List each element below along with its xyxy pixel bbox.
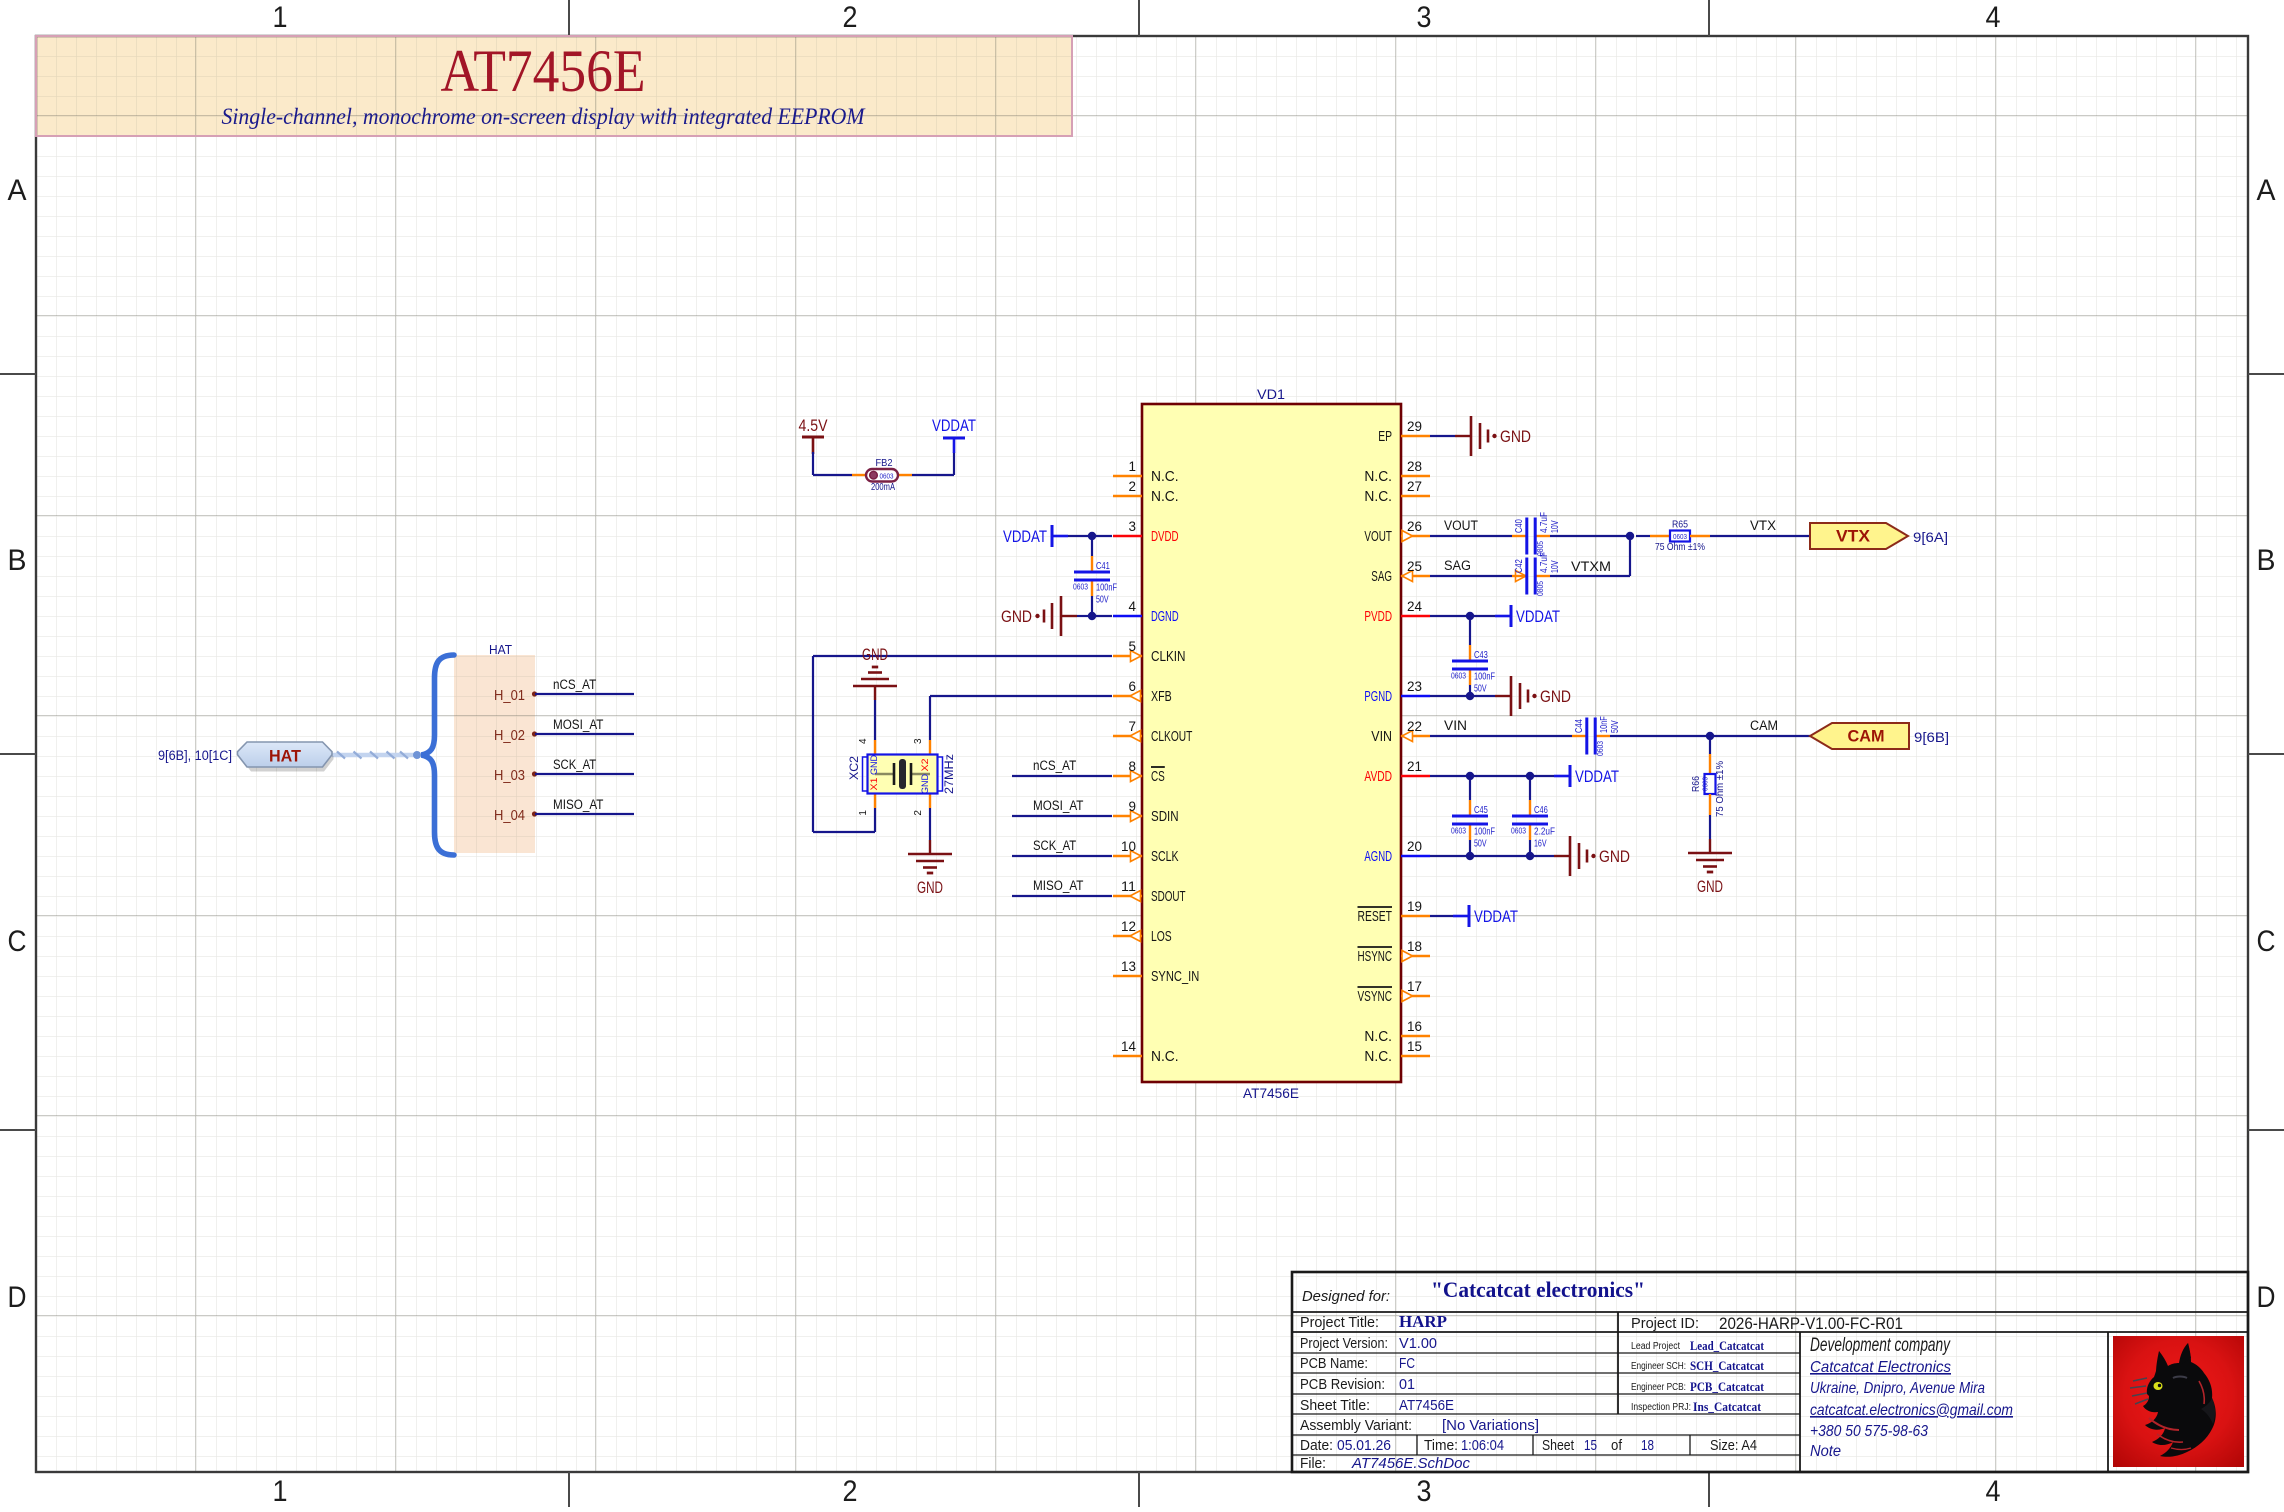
svg-text:24: 24 bbox=[1407, 599, 1422, 614]
svg-text:XFB: XFB bbox=[1151, 688, 1172, 705]
svg-text:SAG: SAG bbox=[1371, 568, 1392, 585]
svg-text:catcatcat.electronics@gmail.co: catcatcat.electronics@gmail.com bbox=[1810, 1402, 2013, 1419]
svg-text:VD1: VD1 bbox=[1257, 386, 1285, 402]
harness brace bbox=[422, 655, 455, 855]
svg-text:C42: C42 bbox=[1513, 559, 1525, 573]
title block frame bbox=[1292, 1272, 2248, 1472]
svg-text:MOSI_AT: MOSI_AT bbox=[553, 717, 603, 732]
power port VDDAT (pin 3) bbox=[1052, 535, 1068, 538]
svg-text:Engineer SCH:: Engineer SCH: bbox=[1631, 1361, 1686, 1372]
port CAM bbox=[1810, 723, 1909, 749]
svg-text:GND: GND bbox=[920, 774, 931, 794]
svg-text:Project Title:: Project Title: bbox=[1300, 1314, 1379, 1331]
svg-text:Single-channel, monochrome on-: Single-channel, monochrome on-screen dis… bbox=[222, 104, 867, 129]
svg-text:DVDD: DVDD bbox=[1151, 528, 1179, 545]
power port 4.5V bbox=[812, 437, 815, 454]
svg-text:B: B bbox=[2257, 544, 2276, 577]
svg-text:SCH_Catcatcat: SCH_Catcatcat bbox=[1690, 1358, 1765, 1373]
IC pin 23 PGND (right) bbox=[1401, 695, 1430, 697]
svg-text:C45: C45 bbox=[1474, 804, 1488, 816]
svg-text:C40: C40 bbox=[1513, 519, 1525, 533]
svg-text:H_04: H_04 bbox=[494, 808, 525, 824]
svg-text:10V: 10V bbox=[1549, 520, 1561, 533]
svg-text:200mA: 200mA bbox=[871, 481, 895, 493]
svg-text:1: 1 bbox=[273, 1475, 288, 1507]
svg-text:AVDD: AVDD bbox=[1364, 768, 1392, 785]
svg-text:D: D bbox=[8, 1281, 27, 1314]
svg-text:5: 5 bbox=[1129, 639, 1137, 654]
svg-text:V1.00: V1.00 bbox=[1399, 1335, 1437, 1352]
wire VDDAT to pin 3 bbox=[1068, 535, 1112, 537]
svg-text:DGND: DGND bbox=[1151, 608, 1179, 625]
svg-text:1: 1 bbox=[273, 1, 288, 34]
svg-text:VTXM: VTXM bbox=[1571, 559, 1611, 574]
IC pin 28 N.C. (right) bbox=[1401, 475, 1430, 477]
wire net MOSI_AT to IC bbox=[1012, 815, 1112, 817]
svg-text:XC2: XC2 bbox=[847, 756, 861, 780]
node junction AGND 1 bbox=[1466, 852, 1474, 860]
svg-text:0603: 0603 bbox=[1511, 827, 1526, 836]
node junction AVDD 1 bbox=[1466, 772, 1474, 780]
svg-text:3: 3 bbox=[913, 738, 924, 744]
svg-text:Project ID:: Project ID: bbox=[1631, 1315, 1699, 1332]
svg-text:FB2: FB2 bbox=[876, 457, 893, 469]
wire AVDD bbox=[1430, 775, 1554, 777]
IC pin 26 VOUT (right) bbox=[1401, 535, 1430, 537]
IC pin 5 CLKIN (left) bbox=[1113, 655, 1142, 657]
IC pin 17 VSYNC (right) bbox=[1401, 995, 1430, 997]
svg-text:Catcatcat Electronics: Catcatcat Electronics bbox=[1810, 1359, 1951, 1376]
svg-text:PCB Revision:: PCB Revision: bbox=[1300, 1376, 1385, 1393]
svg-text:H_03: H_03 bbox=[494, 768, 525, 784]
wire junction to pin 4 bbox=[1092, 615, 1112, 617]
wire harness MOSI_AT bbox=[535, 733, 634, 735]
svg-text:A: A bbox=[8, 174, 27, 207]
svg-text:VSYNC: VSYNC bbox=[1358, 988, 1393, 1005]
IC pin 15 N.C. (right) bbox=[1401, 1055, 1430, 1057]
svg-text:VTX: VTX bbox=[1836, 527, 1871, 546]
svg-text:AT7456E: AT7456E bbox=[1399, 1397, 1454, 1414]
svg-text:R65: R65 bbox=[1672, 519, 1688, 531]
svg-text:A: A bbox=[2257, 174, 2276, 207]
svg-text:H_01: H_01 bbox=[494, 688, 525, 704]
svg-text:GND: GND bbox=[1500, 427, 1531, 446]
svg-text:2.2uF: 2.2uF bbox=[1534, 826, 1555, 838]
IC pin 13 SYNC_IN (left) bbox=[1113, 975, 1142, 977]
harness cable from HAT port bbox=[332, 753, 418, 758]
harness HAT shaded region bbox=[454, 655, 535, 853]
svg-text:16: 16 bbox=[1407, 1019, 1422, 1034]
node junction CAM bbox=[1706, 732, 1714, 740]
svg-text:VDDAT: VDDAT bbox=[1516, 607, 1560, 626]
svg-text:B: B bbox=[8, 544, 27, 577]
svg-text:SCLK: SCLK bbox=[1151, 848, 1179, 865]
ground GND (EP pin 29) bbox=[1455, 435, 1471, 437]
wire crystal pin3 to XFB pin 6 bbox=[929, 696, 931, 740]
svg-text:14: 14 bbox=[1121, 1039, 1136, 1054]
svg-text:VOUT: VOUT bbox=[1364, 528, 1392, 545]
power port VDDAT (top) bbox=[953, 438, 956, 453]
IC pin 12 LOS (left) bbox=[1113, 935, 1142, 937]
svg-text:SCK_AT: SCK_AT bbox=[553, 757, 596, 772]
svg-text:100nF: 100nF bbox=[1474, 826, 1495, 838]
capacitor C40 4.7uF 10V bbox=[1512, 535, 1526, 537]
resistor R65 75 Ohm bbox=[1636, 535, 1650, 537]
svg-text:C41: C41 bbox=[1096, 560, 1110, 572]
svg-text:4: 4 bbox=[858, 738, 869, 744]
svg-text:GND: GND bbox=[1540, 687, 1571, 706]
svg-text:X2: X2 bbox=[920, 759, 931, 772]
svg-text:PGND: PGND bbox=[1364, 688, 1392, 705]
svg-text:SDIN: SDIN bbox=[1151, 808, 1179, 825]
ferrite bead FB2 200mA bbox=[852, 474, 867, 476]
svg-text:15: 15 bbox=[1584, 1437, 1597, 1454]
ground GND (R66) bbox=[1709, 839, 1711, 853]
svg-text:1: 1 bbox=[858, 810, 869, 816]
signal arrow into C42 bbox=[1516, 571, 1527, 582]
svg-text:Size: A4: Size: A4 bbox=[1710, 1437, 1757, 1454]
svg-text:Ins_Catcatcat: Ins_Catcatcat bbox=[1693, 1399, 1762, 1414]
svg-text:C46: C46 bbox=[1534, 804, 1548, 816]
svg-text:2: 2 bbox=[843, 1475, 858, 1507]
IC pin 6 XFB (left) bbox=[1113, 695, 1142, 697]
svg-text:28: 28 bbox=[1407, 459, 1422, 474]
node VTX junction bbox=[1626, 532, 1634, 540]
svg-text:8: 8 bbox=[1129, 759, 1137, 774]
node junction pin3 bbox=[1088, 532, 1096, 540]
wire harness SCK_AT bbox=[535, 773, 634, 775]
svg-text:PVDD: PVDD bbox=[1364, 608, 1392, 625]
svg-text:Engineer PCB:: Engineer PCB: bbox=[1631, 1382, 1686, 1393]
svg-text:VDDAT: VDDAT bbox=[932, 416, 976, 435]
svg-text:16V: 16V bbox=[1534, 838, 1547, 850]
svg-text:10: 10 bbox=[1121, 839, 1136, 854]
svg-text:9[6B]: 9[6B] bbox=[1914, 729, 1949, 745]
svg-text:N.C.: N.C. bbox=[1364, 488, 1392, 505]
svg-text:CLKOUT: CLKOUT bbox=[1151, 728, 1192, 745]
svg-text:9[6A]: 9[6A] bbox=[1913, 529, 1948, 545]
svg-text:50V: 50V bbox=[1096, 594, 1109, 606]
svg-text:21: 21 bbox=[1407, 759, 1422, 774]
svg-text:File:: File: bbox=[1300, 1455, 1326, 1472]
svg-text:GND: GND bbox=[869, 755, 880, 775]
company logo (red square with black cat) bbox=[2113, 1336, 2244, 1467]
svg-text:nCS_AT: nCS_AT bbox=[553, 677, 596, 692]
svg-text:MISO_AT: MISO_AT bbox=[553, 797, 603, 812]
svg-text:N.C.: N.C. bbox=[1151, 1048, 1179, 1065]
sheet title banner bbox=[36, 36, 1072, 136]
svg-text:N.C.: N.C. bbox=[1364, 468, 1392, 485]
op-amp/IC U1 VD1 AT7456E body bbox=[1142, 404, 1401, 1082]
svg-text:15: 15 bbox=[1407, 1039, 1422, 1054]
wire harness MISO_AT bbox=[535, 813, 634, 815]
svg-text:12: 12 bbox=[1121, 919, 1136, 934]
svg-text:19: 19 bbox=[1407, 899, 1422, 914]
node junction pin4 bbox=[1088, 612, 1096, 620]
svg-text:0603: 0603 bbox=[1073, 583, 1088, 592]
svg-text:100nF: 100nF bbox=[1474, 671, 1495, 683]
svg-text:+380 50 575-98-63: +380 50 575-98-63 bbox=[1810, 1423, 1928, 1440]
wire RESET to VDDAT bbox=[1430, 915, 1453, 917]
svg-text:Assembly Variant:: Assembly Variant: bbox=[1300, 1417, 1412, 1434]
wire VTXM bbox=[1550, 575, 1630, 577]
svg-text:SAG: SAG bbox=[1444, 558, 1471, 573]
node junction AGND 2 bbox=[1526, 852, 1534, 860]
svg-text:22: 22 bbox=[1407, 719, 1422, 734]
svg-text:2026-HARP-V1.00-FC-R01: 2026-HARP-V1.00-FC-R01 bbox=[1719, 1314, 1903, 1333]
svg-text:3: 3 bbox=[1129, 519, 1137, 534]
svg-text:PCB_Catcatcat: PCB_Catcatcat bbox=[1690, 1379, 1765, 1394]
svg-text:CAM: CAM bbox=[1848, 727, 1885, 746]
power port VDDAT (pin 21) bbox=[1554, 775, 1570, 778]
svg-text:4.5V: 4.5V bbox=[799, 416, 829, 435]
node junction AVDD 2 bbox=[1526, 772, 1534, 780]
svg-text:0603: 0603 bbox=[880, 471, 894, 480]
svg-text:SYNC_IN: SYNC_IN bbox=[1151, 968, 1199, 985]
IC pin 8 CS (left) bbox=[1113, 775, 1142, 777]
IC pin 14 N.C. (left) bbox=[1113, 1055, 1142, 1057]
svg-text:6: 6 bbox=[1129, 679, 1137, 694]
svg-text:Designed for:: Designed for: bbox=[1302, 1288, 1390, 1305]
node junction PVDD bbox=[1466, 612, 1474, 620]
wire R65 to VTX port bbox=[1710, 535, 1810, 537]
wire net nCS_AT to IC bbox=[1012, 775, 1112, 777]
svg-text:Sheet: Sheet bbox=[1542, 1437, 1575, 1454]
svg-text:23: 23 bbox=[1407, 679, 1422, 694]
svg-text:VDDAT: VDDAT bbox=[1575, 767, 1619, 786]
IC pin 22 VIN (right) bbox=[1401, 735, 1430, 737]
wire net MISO_AT to IC bbox=[1012, 895, 1112, 897]
IC pin 20 AGND (right) bbox=[1401, 855, 1430, 857]
svg-text:100nF: 100nF bbox=[1096, 582, 1117, 594]
svg-text:0603: 0603 bbox=[1451, 672, 1466, 681]
svg-text:HSYNC: HSYNC bbox=[1358, 948, 1393, 965]
IC pin 2 N.C. (left) bbox=[1113, 495, 1142, 497]
svg-text:Development company: Development company bbox=[1810, 1335, 1951, 1356]
svg-text:0603: 0603 bbox=[1451, 827, 1466, 836]
svg-text:9: 9 bbox=[1129, 799, 1137, 814]
IC pin 18 HSYNC (right) bbox=[1401, 955, 1430, 957]
svg-text:Inspection PRJ:: Inspection PRJ: bbox=[1631, 1402, 1691, 1413]
port HAT bbox=[242, 744, 334, 772]
IC pin 10 SCLK (left) bbox=[1113, 855, 1142, 857]
svg-text:nCS_AT: nCS_AT bbox=[1033, 758, 1076, 773]
svg-text:0603: 0603 bbox=[1673, 532, 1687, 541]
svg-text:13: 13 bbox=[1121, 959, 1136, 974]
svg-text:75 Ohm ±1%: 75 Ohm ±1% bbox=[1714, 761, 1726, 817]
IC pin 27 N.C. (right) bbox=[1401, 495, 1430, 497]
svg-text:75 Ohm ±1%: 75 Ohm ±1% bbox=[1655, 541, 1705, 553]
svg-text:C43: C43 bbox=[1474, 649, 1488, 661]
svg-text:Ukraine, Dnipro, Avenue Mira: Ukraine, Dnipro, Avenue Mira bbox=[1810, 1380, 1985, 1397]
svg-text:CLKIN: CLKIN bbox=[1151, 648, 1186, 665]
svg-text:GND: GND bbox=[1001, 607, 1032, 626]
svg-text:2: 2 bbox=[913, 810, 924, 816]
svg-text:D: D bbox=[2257, 1281, 2276, 1314]
svg-text:4: 4 bbox=[1129, 599, 1137, 614]
power port VDDAT (pin 24) bbox=[1495, 615, 1511, 618]
svg-text:EP: EP bbox=[1378, 428, 1392, 445]
svg-text:N.C.: N.C. bbox=[1151, 468, 1179, 485]
resistor R66 75 Ohm bbox=[1709, 736, 1711, 754]
wire crystal pin1 loop to CLKIN pin 5 bbox=[874, 808, 876, 832]
wire PGND bbox=[1430, 695, 1495, 697]
wire VIN bbox=[1430, 735, 1572, 737]
svg-text:C: C bbox=[8, 925, 27, 958]
svg-text:HAT: HAT bbox=[489, 642, 512, 657]
node junction PGND bbox=[1466, 692, 1474, 700]
IC pin 9 SDIN (left) bbox=[1113, 815, 1142, 817]
IC pin 19 RESET (right) bbox=[1401, 915, 1430, 917]
svg-text:27MHz: 27MHz bbox=[942, 754, 956, 794]
svg-text:CS: CS bbox=[1151, 768, 1165, 785]
svg-text:[No Variations]: [No Variations] bbox=[1442, 1417, 1539, 1434]
svg-text:Sheet Title:: Sheet Title: bbox=[1300, 1397, 1370, 1414]
svg-text:N.C.: N.C. bbox=[1364, 1028, 1392, 1045]
svg-text:X1: X1 bbox=[869, 778, 880, 791]
svg-text:AGND: AGND bbox=[1364, 848, 1392, 865]
svg-text:VIN: VIN bbox=[1444, 718, 1467, 733]
capacitor C45 100nF 50V bbox=[1469, 776, 1471, 800]
svg-text:VTX: VTX bbox=[1750, 518, 1776, 533]
svg-text:PCB Name:: PCB Name: bbox=[1300, 1355, 1368, 1372]
svg-text:1:06:04: 1:06:04 bbox=[1461, 1437, 1504, 1454]
svg-text:18: 18 bbox=[1407, 939, 1422, 954]
IC pin 4 DGND (left) bbox=[1113, 615, 1142, 617]
svg-text:2: 2 bbox=[1129, 479, 1137, 494]
svg-text:20: 20 bbox=[1407, 839, 1422, 854]
svg-text:27: 27 bbox=[1407, 479, 1422, 494]
svg-text:Lead_Catcatcat: Lead_Catcatcat bbox=[1690, 1338, 1765, 1353]
wire EP to GND bbox=[1430, 435, 1455, 437]
svg-text:50V: 50V bbox=[1474, 838, 1487, 850]
svg-text:MISO_AT: MISO_AT bbox=[1033, 878, 1083, 893]
svg-text:GND: GND bbox=[1697, 877, 1723, 896]
svg-text:11: 11 bbox=[1121, 879, 1136, 894]
svg-text:Date:: Date: bbox=[1300, 1437, 1333, 1454]
svg-text:SDOUT: SDOUT bbox=[1151, 888, 1186, 905]
capacitor C41 100nF 50V bbox=[1091, 536, 1093, 556]
svg-text:1: 1 bbox=[1129, 459, 1137, 474]
svg-text:3: 3 bbox=[1417, 1, 1432, 34]
svg-text:GND: GND bbox=[862, 645, 888, 664]
wire C40 to junction bbox=[1550, 535, 1630, 537]
svg-text:18: 18 bbox=[1641, 1437, 1654, 1454]
svg-text:Project Version:: Project Version: bbox=[1300, 1335, 1388, 1352]
wire PVDD bbox=[1430, 615, 1495, 617]
svg-text:FC: FC bbox=[1399, 1355, 1415, 1372]
svg-text:VOUT: VOUT bbox=[1444, 518, 1478, 533]
svg-text:4: 4 bbox=[1986, 1475, 2001, 1507]
svg-text:0805: 0805 bbox=[1536, 581, 1545, 596]
svg-text:Time:: Time: bbox=[1424, 1437, 1458, 1454]
svg-text:SCK_AT: SCK_AT bbox=[1033, 838, 1076, 853]
IC pin 11 SDOUT (left) bbox=[1113, 895, 1142, 897]
svg-text:HAT: HAT bbox=[269, 747, 302, 766]
ground GND below crystal bbox=[929, 808, 931, 840]
power port VDDAT (pin 19) bbox=[1453, 915, 1469, 918]
wire 4.5V to FB2 bbox=[812, 452, 814, 475]
svg-text:50V: 50V bbox=[1474, 683, 1487, 695]
svg-text:AT7456E: AT7456E bbox=[441, 38, 646, 104]
capacitor C44 10nF 50V bbox=[1572, 735, 1586, 737]
svg-text:C44: C44 bbox=[1573, 719, 1585, 733]
IC pin 1 N.C. (left) bbox=[1113, 475, 1142, 477]
wire AGND bbox=[1430, 855, 1554, 857]
svg-text:7: 7 bbox=[1129, 719, 1137, 734]
svg-text:of: of bbox=[1611, 1437, 1623, 1454]
IC pin 29 EP (right) bbox=[1401, 435, 1430, 437]
svg-text:10V: 10V bbox=[1549, 560, 1561, 573]
svg-text:VDDAT: VDDAT bbox=[1003, 527, 1047, 546]
IC pin 21 AVDD (right) bbox=[1401, 775, 1430, 777]
ground GND (pin 4) bbox=[1077, 615, 1092, 617]
IC pin 16 N.C. (right) bbox=[1401, 1035, 1430, 1037]
svg-text:GND: GND bbox=[917, 878, 943, 897]
IC pin 24 PVDD (right) bbox=[1401, 615, 1430, 617]
svg-text:50V: 50V bbox=[1609, 720, 1621, 733]
svg-text:VIN: VIN bbox=[1371, 728, 1392, 745]
svg-text:2: 2 bbox=[843, 1, 858, 34]
svg-text:CAM: CAM bbox=[1750, 718, 1778, 733]
svg-text:LOS: LOS bbox=[1151, 928, 1172, 945]
ground GND above crystal bbox=[874, 700, 876, 740]
wire VOUT bbox=[1430, 535, 1512, 537]
svg-text:4: 4 bbox=[1986, 1, 2001, 34]
svg-text:N.C.: N.C. bbox=[1151, 488, 1179, 505]
svg-text:MOSI_AT: MOSI_AT bbox=[1033, 798, 1083, 813]
svg-text:GND: GND bbox=[1599, 847, 1630, 866]
ground GND (pin 23) bbox=[1495, 695, 1511, 697]
svg-text:N.C.: N.C. bbox=[1364, 1048, 1392, 1065]
capacitor C43 100nF 50V bbox=[1469, 616, 1471, 645]
svg-text:05.01.26: 05.01.26 bbox=[1337, 1437, 1391, 1454]
wire FB2 to VDDAT bbox=[912, 474, 954, 476]
capacitor C46 2.2uF 16V bbox=[1529, 776, 1531, 800]
svg-text:29: 29 bbox=[1407, 419, 1422, 434]
svg-text:Note: Note bbox=[1810, 1443, 1841, 1460]
ground GND (pin 20) bbox=[1554, 855, 1570, 857]
svg-text:0603: 0603 bbox=[1596, 741, 1605, 756]
svg-text:3: 3 bbox=[1417, 1475, 1432, 1507]
IC pin 7 CLKOUT (left) bbox=[1113, 735, 1142, 737]
svg-text:"Catcatcat electronics": "Catcatcat electronics" bbox=[1431, 1277, 1645, 1302]
wire net SCK_AT to IC bbox=[1012, 855, 1112, 857]
wire SAG bbox=[1430, 575, 1512, 577]
svg-text:Lead Project: Lead Project bbox=[1631, 1341, 1680, 1352]
svg-text:H_02: H_02 bbox=[494, 728, 525, 744]
svg-text:HARP: HARP bbox=[1399, 1312, 1447, 1331]
svg-text:RESET: RESET bbox=[1358, 908, 1393, 925]
wire harness nCS_AT bbox=[535, 693, 634, 695]
svg-text:R66: R66 bbox=[1690, 776, 1702, 792]
IC pin 25 SAG (right) bbox=[1401, 575, 1430, 577]
svg-text:C: C bbox=[2257, 925, 2276, 958]
svg-text:AT7456E: AT7456E bbox=[1243, 1085, 1299, 1101]
svg-text:17: 17 bbox=[1407, 979, 1422, 994]
svg-text:9[6B], 10[1C]: 9[6B], 10[1C] bbox=[158, 748, 232, 763]
svg-text:01: 01 bbox=[1399, 1376, 1415, 1393]
port VTX bbox=[1810, 523, 1908, 549]
IC pin 3 DVDD (left) bbox=[1113, 535, 1142, 537]
wire C44 to junction bbox=[1610, 735, 1810, 737]
svg-text:25: 25 bbox=[1407, 559, 1422, 574]
svg-text:AT7456E.SchDoc: AT7456E.SchDoc bbox=[1351, 1455, 1470, 1472]
crystal XC2 27MHz bbox=[874, 740, 876, 754]
capacitor C42 4.7uF 10V bbox=[1512, 575, 1526, 577]
svg-text:VDDAT: VDDAT bbox=[1474, 907, 1518, 926]
svg-text:26: 26 bbox=[1407, 519, 1422, 534]
